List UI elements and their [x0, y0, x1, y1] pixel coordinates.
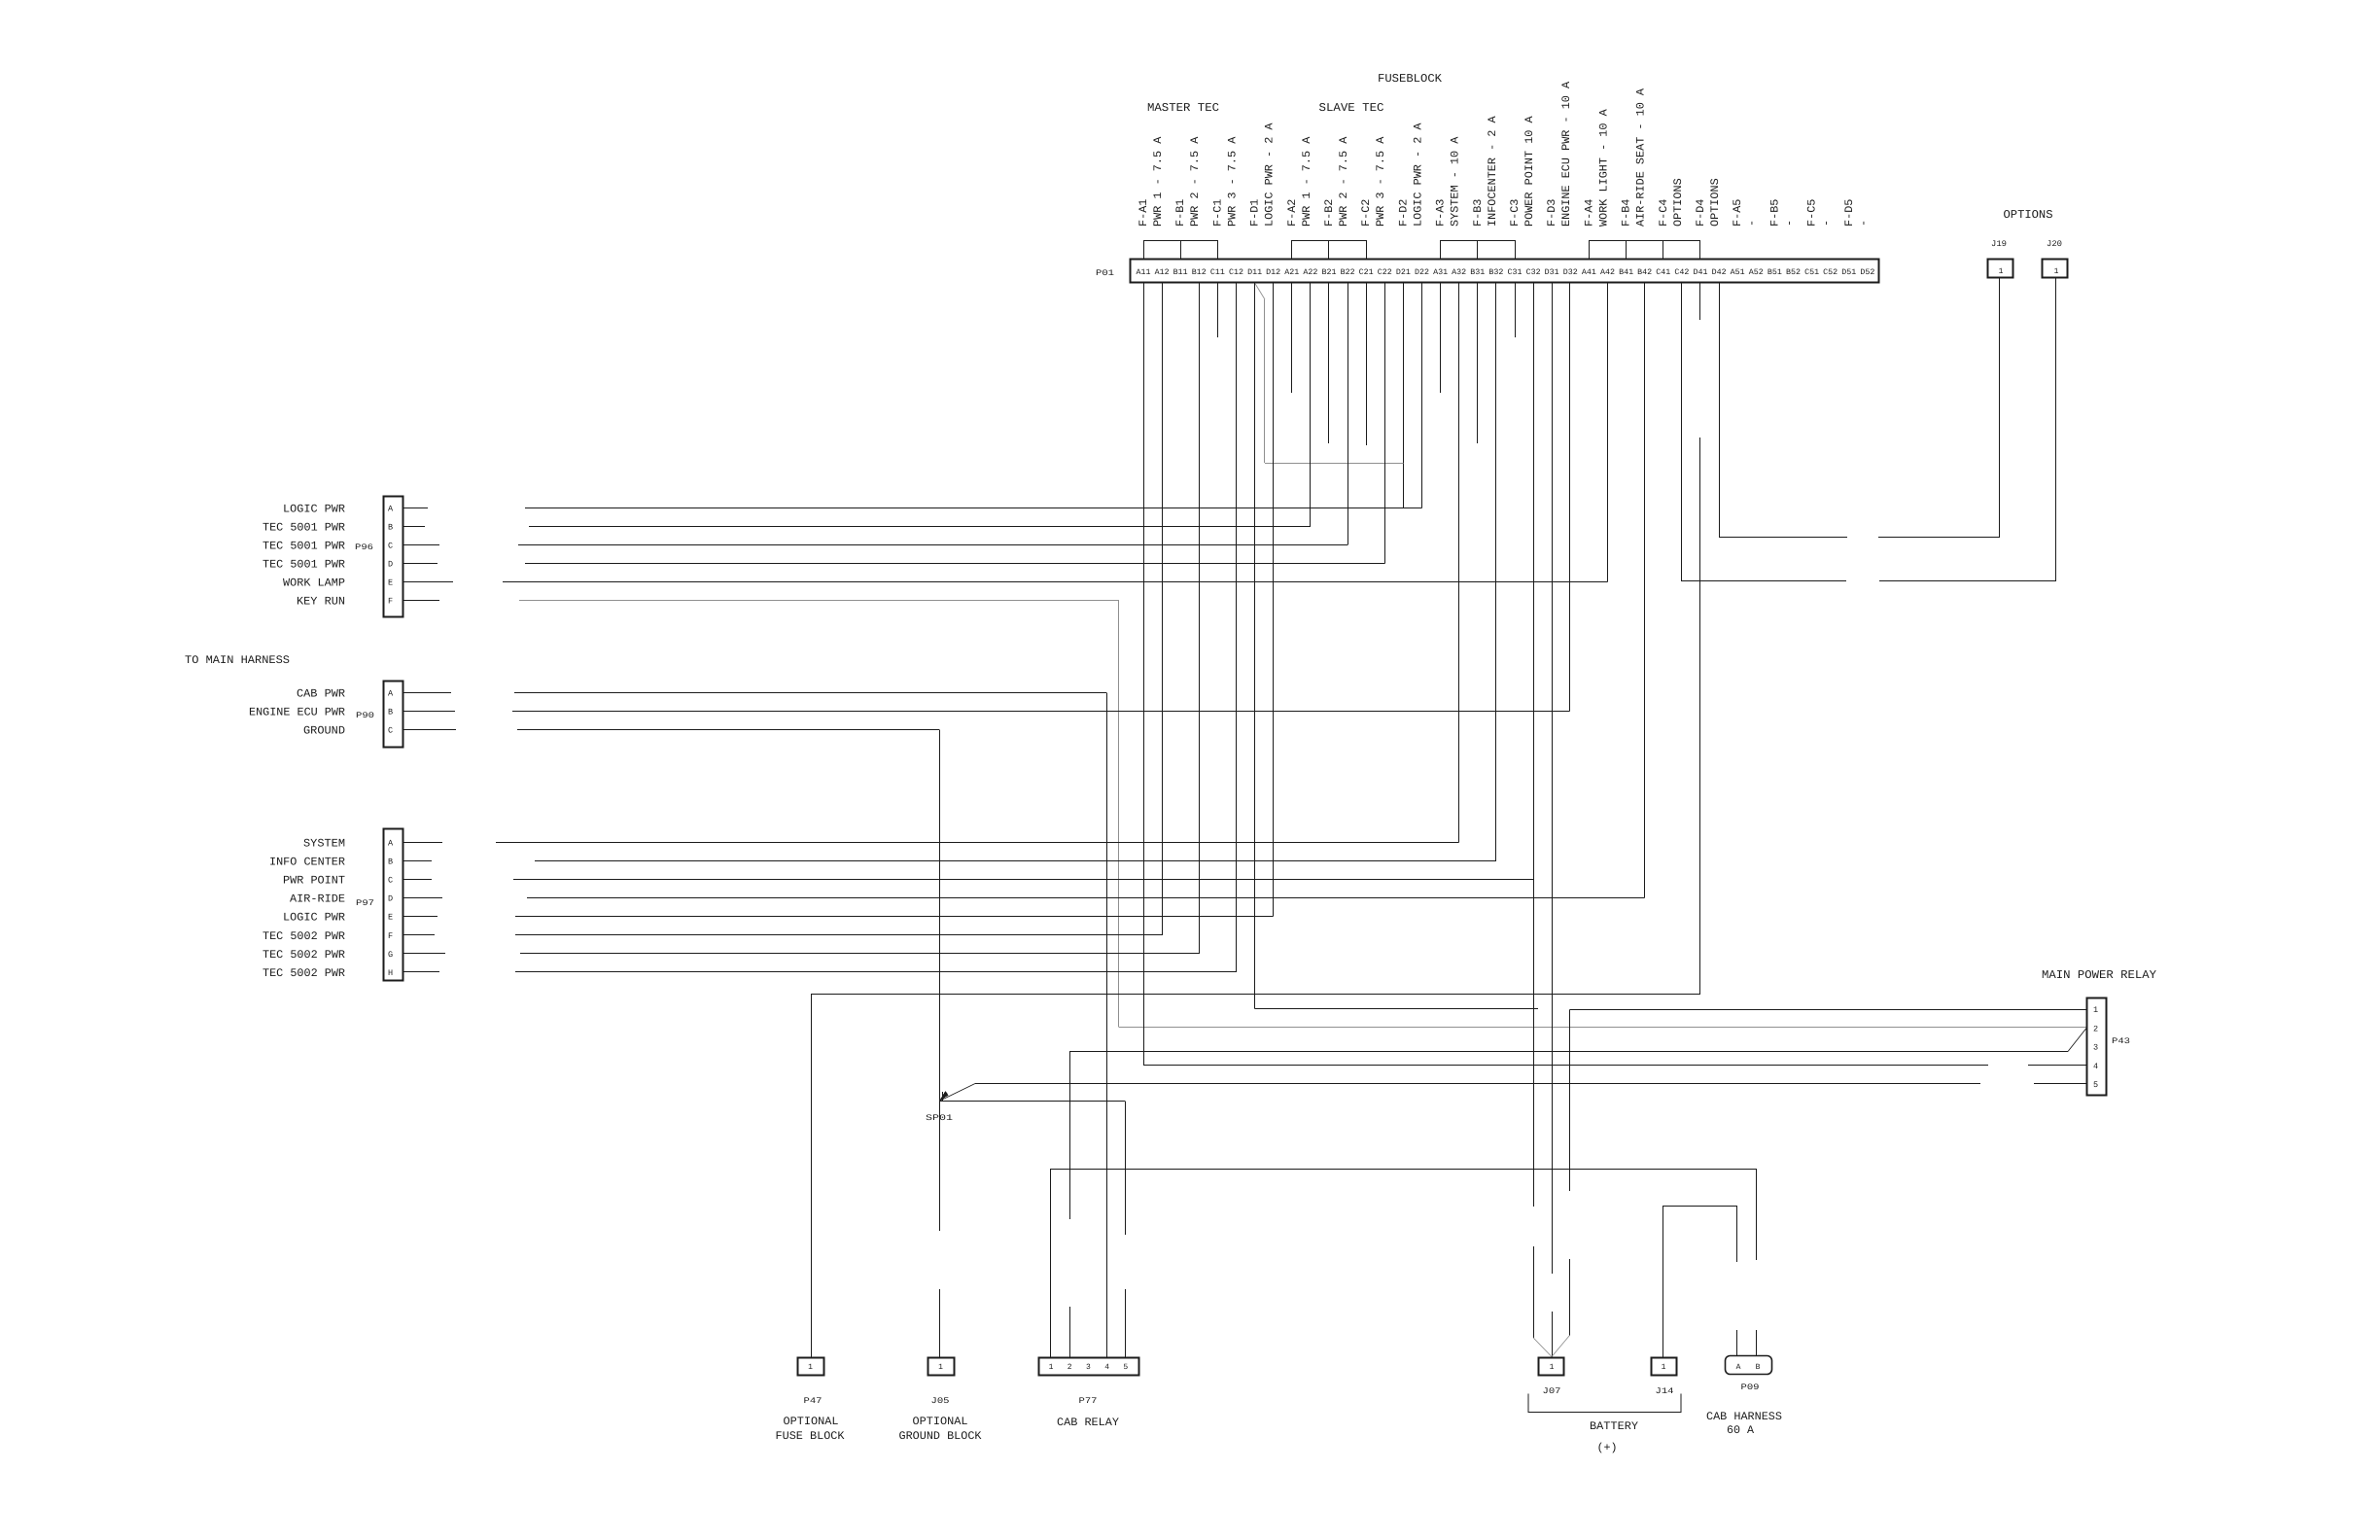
svg-text:A: A	[388, 689, 394, 699]
svg-text:C42: C42	[1674, 268, 1689, 277]
svg-text:F-D4: F-D4	[1695, 199, 1707, 227]
svg-text:4: 4	[2093, 1062, 2098, 1071]
svg-text:F-A2: F-A2	[1286, 199, 1299, 227]
svg-text:1: 1	[1550, 1363, 1555, 1372]
svg-text:FUSEBLOCK: FUSEBLOCK	[1378, 72, 1443, 86]
svg-text:FUSE BLOCK: FUSE BLOCK	[776, 1430, 845, 1443]
svg-text:OPTIONAL: OPTIONAL	[913, 1416, 968, 1428]
svg-text:TEC 5001 PWR: TEC 5001 PWR	[262, 541, 345, 553]
svg-text:-: -	[1746, 220, 1759, 227]
svg-text:D: D	[388, 894, 393, 904]
svg-text:H: H	[388, 968, 393, 978]
wire net INFO CENTER: B32 to P97-B	[535, 860, 1496, 862]
svg-text:D41: D41	[1694, 268, 1708, 277]
wire net PWR POINT: P97-C tee on C32 battery feed	[513, 879, 1533, 881]
wire net TEC 5001 PWR: B22 to P96-C	[518, 544, 1347, 546]
wire gray jog from D11 to D21 (logic pwr tie)	[1255, 283, 1265, 299]
svg-text:LOGIC PWR: LOGIC PWR	[283, 504, 345, 516]
svg-text:OPTIONS: OPTIONS	[1672, 178, 1685, 227]
splice SP01 branch to relay P43-5	[975, 1083, 1980, 1085]
connector P43 main power relay	[2087, 998, 2107, 1096]
svg-text:TEC 5002 PWR: TEC 5002 PWR	[262, 930, 345, 943]
svg-text:A41: A41	[1582, 268, 1596, 277]
splice SP01 pin 1 tick	[942, 1092, 944, 1102]
svg-text:D11: D11	[1247, 268, 1262, 277]
connector P97	[384, 829, 403, 981]
svg-text:D31: D31	[1545, 268, 1559, 277]
svg-text:OPTIONAL: OPTIONAL	[784, 1416, 839, 1428]
svg-text:D21: D21	[1396, 268, 1411, 277]
fuse link B31-C31	[1478, 241, 1516, 261]
svg-text:PWR 2 - 7.5 A: PWR 2 - 7.5 A	[1338, 137, 1350, 227]
svg-text:SYSTEM: SYSTEM	[303, 838, 345, 851]
battery bracket	[1528, 1394, 1681, 1413]
fuse link C41-D41	[1663, 241, 1700, 261]
svg-text:C: C	[388, 876, 393, 886]
svg-text:WORK LIGHT - 10 A: WORK LIGHT - 10 A	[1597, 109, 1610, 227]
wire A11 to relay P43-4	[1143, 283, 1145, 1066]
connector P77 cab relay	[1039, 1358, 1139, 1376]
wire net ENGINE ECU PWR: D32 to P90-B	[512, 711, 1570, 713]
svg-text:P96: P96	[355, 542, 373, 552]
wire net TEC 5002 PWR: C12 to P97-H	[515, 971, 1237, 973]
svg-text:BATTERY: BATTERY	[1590, 1420, 1638, 1433]
svg-text:B31: B31	[1470, 268, 1485, 277]
svg-text:ENGINE ECU PWR: ENGINE ECU PWR	[249, 707, 345, 719]
svg-text:J19: J19	[1991, 239, 2007, 249]
svg-text:4: 4	[1104, 1363, 1109, 1372]
wire net LOGIC PWR 2: D12 to P97-E	[515, 916, 1274, 918]
svg-text:C51: C51	[1804, 268, 1819, 277]
P01 pin labels A11-D52	[1137, 268, 1875, 277]
svg-text:F-B3: F-B3	[1472, 199, 1485, 227]
svg-text:1: 1	[938, 1363, 943, 1372]
svg-text:B: B	[388, 708, 393, 717]
svg-text:SLAVE TEC: SLAVE TEC	[1319, 101, 1384, 115]
svg-text:1: 1	[1999, 267, 2004, 276]
svg-text:A11: A11	[1137, 268, 1151, 277]
svg-text:1: 1	[2054, 267, 2059, 276]
svg-text:F-C5: F-C5	[1806, 199, 1819, 227]
wire cab relay P77-1 to cab harness P09-B	[1050, 1169, 1052, 1357]
svg-text:LOGIC PWR - 2 A: LOGIC PWR - 2 A	[1264, 122, 1277, 227]
svg-text:B: B	[388, 523, 393, 533]
P97 pin stubs	[402, 843, 446, 972]
svg-text:B11: B11	[1173, 268, 1188, 277]
fuse link B11-C11	[1181, 241, 1218, 261]
svg-text:C21: C21	[1359, 268, 1374, 277]
svg-text:5: 5	[1123, 1363, 1128, 1372]
svg-text:C31: C31	[1508, 268, 1522, 277]
svg-text:PWR 3 - 7.5 A: PWR 3 - 7.5 A	[1226, 137, 1239, 227]
unconnected pin stubs C11 A21 B21 C21 A31 B31 C31	[1218, 283, 1516, 445]
svg-text:TEC 5002 PWR: TEC 5002 PWR	[262, 949, 345, 962]
svg-text:1: 1	[808, 1363, 813, 1372]
svg-text:2: 2	[1067, 1363, 1072, 1372]
svg-text:P97: P97	[356, 898, 374, 908]
svg-text:(+): (+)	[1597, 1442, 1618, 1454]
svg-text:F-B1: F-B1	[1174, 199, 1187, 227]
svg-text:P43: P43	[2112, 1036, 2130, 1046]
svg-text:PWR 2 - 7.5 A: PWR 2 - 7.5 A	[1189, 137, 1202, 227]
svg-text:A: A	[388, 839, 394, 849]
svg-text:F-A4: F-A4	[1583, 199, 1595, 227]
svg-text:1: 1	[1049, 1363, 1054, 1372]
svg-text:OPTIONS: OPTIONS	[2004, 208, 2053, 222]
svg-text:F-A5: F-A5	[1732, 199, 1744, 227]
svg-text:SP01: SP01	[926, 1113, 953, 1123]
wire net TEC 5001 PWR: C22 to P96-D	[525, 563, 1384, 565]
svg-text:B42: B42	[1637, 268, 1652, 277]
svg-text:F-D3: F-D3	[1546, 199, 1558, 227]
fuse link B21-C21	[1329, 241, 1367, 261]
svg-text:1: 1	[1662, 1363, 1666, 1372]
wire battery feed D31 to J07	[1552, 283, 1554, 1274]
svg-text:PWR POINT: PWR POINT	[283, 875, 345, 888]
svg-text:P77: P77	[1079, 1396, 1098, 1406]
svg-text:PWR 1 - 7.5 A: PWR 1 - 7.5 A	[1301, 137, 1313, 227]
svg-text:F-A1: F-A1	[1137, 199, 1150, 227]
svg-text:B32: B32	[1488, 268, 1503, 277]
svg-text:CAB HARNESS: CAB HARNESS	[1706, 1411, 1782, 1423]
signal labels P97	[262, 838, 345, 980]
svg-text:A42: A42	[1600, 268, 1615, 277]
wire J14 to cab harness P09-A	[1662, 1206, 1664, 1357]
connector P01 fuseblock header	[1131, 260, 1879, 283]
wire net SYSTEM: A32 to P97-A	[496, 842, 1459, 844]
signal labels P96	[262, 504, 345, 609]
svg-text:C32: C32	[1526, 268, 1541, 277]
svg-text:F-C4: F-C4	[1658, 199, 1670, 227]
svg-text:A: A	[388, 505, 394, 514]
svg-text:G: G	[388, 950, 393, 960]
fuse link A41-B41	[1590, 241, 1627, 261]
svg-text:TEC 5001 PWR: TEC 5001 PWR	[262, 522, 345, 535]
signal labels P90	[249, 688, 345, 738]
connector P47 optional fuse block	[798, 1358, 824, 1376]
wire net TEC 5001 PWR: A22 to P96-B	[529, 526, 1311, 528]
wire net GROUND: P90-C to splice SP01 and J05	[517, 729, 939, 731]
svg-text:F-D2: F-D2	[1397, 199, 1410, 227]
svg-text:POWER POINT 10 A: POWER POINT 10 A	[1523, 116, 1536, 227]
svg-text:TEC 5001 PWR: TEC 5001 PWR	[262, 559, 345, 572]
svg-text:J20: J20	[2047, 239, 2062, 249]
svg-text:C41: C41	[1656, 268, 1670, 277]
svg-text:D52: D52	[1860, 268, 1874, 277]
svg-text:-: -	[1783, 220, 1796, 227]
wire battery feed C32 to J07	[1533, 283, 1535, 1207]
P96 pin stubs	[402, 508, 454, 601]
svg-text:AIR-RIDE SEAT - 10 A: AIR-RIDE SEAT - 10 A	[1635, 88, 1648, 227]
fuse link A21-B21	[1292, 241, 1329, 261]
svg-text:INFO CENTER: INFO CENTER	[269, 857, 345, 869]
svg-text:D12: D12	[1266, 268, 1280, 277]
svg-text:F-D1: F-D1	[1249, 199, 1262, 227]
svg-text:B22: B22	[1341, 268, 1355, 277]
svg-text:A51: A51	[1731, 268, 1745, 277]
wire net TEC 5002 PWR: B12 to P97-G	[520, 953, 1199, 955]
svg-text:LOGIC PWR - 2 A: LOGIC PWR - 2 A	[1412, 122, 1424, 227]
wire net AIR-RIDE: B42 to P97-D	[527, 897, 1645, 899]
splice SP01 arrow	[939, 1084, 975, 1102]
svg-text:PWR 3 - 7.5 A: PWR 3 - 7.5 A	[1375, 137, 1387, 227]
svg-text:B21: B21	[1322, 268, 1337, 277]
svg-text:MAIN POWER RELAY: MAIN POWER RELAY	[2042, 968, 2156, 982]
svg-text:J05: J05	[931, 1396, 950, 1406]
svg-text:D: D	[388, 560, 393, 570]
svg-text:B52: B52	[1786, 268, 1801, 277]
svg-text:LOGIC PWR: LOGIC PWR	[283, 912, 345, 925]
wire D41 to optional fuse block P47	[1699, 283, 1701, 320]
svg-text:PWR 1 - 7.5 A: PWR 1 - 7.5 A	[1152, 137, 1165, 227]
svg-text:CAB PWR: CAB PWR	[297, 688, 345, 701]
svg-text:-: -	[1821, 220, 1834, 227]
svg-text:C22: C22	[1378, 268, 1392, 277]
connector P90	[384, 682, 403, 748]
wire net KEY RUN (gray): P96-F to relay P43-2	[519, 600, 1119, 602]
svg-text:1: 1	[2093, 1005, 2098, 1015]
svg-text:A31: A31	[1433, 268, 1448, 277]
svg-text:KEY RUN: KEY RUN	[297, 596, 345, 609]
svg-text:CAB RELAY: CAB RELAY	[1057, 1417, 1119, 1429]
svg-text:MASTER TEC: MASTER TEC	[1147, 101, 1219, 115]
svg-text:TO MAIN HARNESS: TO MAIN HARNESS	[185, 654, 290, 667]
svg-text:A22: A22	[1303, 268, 1317, 277]
svg-text:C: C	[388, 542, 393, 551]
svg-text:F-A3: F-A3	[1435, 199, 1448, 227]
svg-text:J14: J14	[1656, 1386, 1674, 1396]
svg-text:F-B5: F-B5	[1768, 199, 1781, 227]
svg-text:2: 2	[2093, 1024, 2098, 1033]
svg-text:B: B	[388, 857, 393, 867]
svg-text:J07: J07	[1543, 1386, 1561, 1396]
connector J05 optional ground block	[928, 1358, 955, 1376]
svg-text:D51: D51	[1841, 268, 1856, 277]
svg-text:D32: D32	[1563, 268, 1578, 277]
wire net LOGIC PWR: D22+D21 to P96-A	[525, 507, 1422, 509]
svg-text:-: -	[1858, 220, 1871, 227]
svg-text:ENGINE ECU PWR - 10 A: ENGINE ECU PWR - 10 A	[1560, 82, 1573, 227]
svg-text:B12: B12	[1192, 268, 1207, 277]
svg-text:SYSTEM - 10 A: SYSTEM - 10 A	[1450, 137, 1462, 227]
svg-text:F: F	[388, 597, 393, 607]
wire net WORK LAMP: A42 to P96-E	[503, 581, 1608, 583]
wire relay coil P43-2 to cab relay P77-2	[1069, 1052, 1071, 1220]
svg-text:F-B4: F-B4	[1621, 199, 1633, 227]
svg-text:C52: C52	[1823, 268, 1837, 277]
svg-text:GROUND BLOCK: GROUND BLOCK	[899, 1430, 982, 1443]
svg-text:C11: C11	[1210, 268, 1225, 277]
connector P96	[384, 497, 403, 617]
svg-text:F-C3: F-C3	[1509, 199, 1522, 227]
svg-text:P01: P01	[1096, 268, 1114, 278]
svg-text:A12: A12	[1155, 268, 1170, 277]
svg-text:P47: P47	[804, 1396, 822, 1406]
connector P09 cab harness	[1726, 1356, 1772, 1375]
svg-text:60 A: 60 A	[1727, 1424, 1754, 1437]
svg-text:TEC 5002 PWR: TEC 5002 PWR	[262, 967, 345, 980]
svg-text:WORK LAMP: WORK LAMP	[283, 577, 345, 590]
svg-text:3: 3	[1086, 1363, 1091, 1372]
svg-text:F-B2: F-B2	[1323, 199, 1336, 227]
svg-text:A52: A52	[1749, 268, 1764, 277]
svg-text:B: B	[1756, 1363, 1761, 1372]
svg-text:A32: A32	[1452, 268, 1466, 277]
wire net TEC 5002 PWR: A12 to P97-F	[515, 934, 1162, 936]
svg-text:E: E	[388, 913, 393, 923]
svg-text:3: 3	[2093, 1043, 2098, 1053]
svg-text:GROUND: GROUND	[303, 725, 345, 738]
connector J07 battery	[1539, 1358, 1564, 1376]
svg-text:B41: B41	[1619, 268, 1633, 277]
svg-text:5: 5	[2093, 1080, 2098, 1090]
wire D11 to battery junction and relay P43-1	[1254, 283, 1256, 1009]
svg-text:AIR-RIDE: AIR-RIDE	[290, 893, 345, 906]
svg-text:F-D5: F-D5	[1843, 199, 1856, 227]
svg-text:P09: P09	[1741, 1382, 1760, 1392]
svg-text:B51: B51	[1767, 268, 1782, 277]
connector J14 battery	[1652, 1358, 1677, 1376]
wire battery feed branch at x1614 to J07	[1569, 1010, 1571, 1192]
svg-text:F-C2: F-C2	[1360, 199, 1373, 227]
svg-text:OPTIONS: OPTIONS	[1709, 178, 1722, 227]
fuse link A31-B31	[1441, 241, 1478, 261]
svg-text:P90: P90	[356, 711, 374, 720]
wire net CAB PWR: P90-A to cab relay P77-4	[514, 692, 1106, 694]
svg-text:D22: D22	[1415, 268, 1429, 277]
wire C42 to options J20	[1681, 283, 1683, 581]
svg-text:C: C	[388, 726, 393, 736]
svg-text:D42: D42	[1712, 268, 1727, 277]
svg-text:C12: C12	[1229, 268, 1243, 277]
svg-text:A: A	[1736, 1363, 1741, 1372]
svg-text:F: F	[388, 931, 393, 941]
fuse link B41-C41	[1627, 241, 1663, 261]
svg-text:F-C1: F-C1	[1211, 199, 1224, 227]
splice SP01 branch to cab relay P77-5	[939, 1101, 1126, 1102]
svg-text:INFOCENTER - 2 A: INFOCENTER - 2 A	[1487, 116, 1499, 227]
svg-text:A21: A21	[1284, 268, 1299, 277]
svg-text:E: E	[388, 578, 393, 588]
wire D42 to options J19	[1719, 283, 1721, 538]
P90 pin stubs	[402, 693, 457, 730]
fuse link A11-B11	[1144, 241, 1181, 261]
